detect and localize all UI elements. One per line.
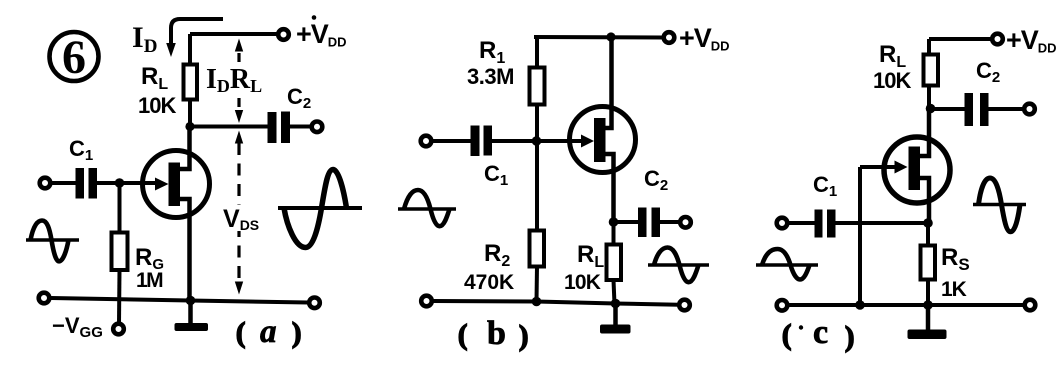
wire: input to C1 (a)	[51, 181, 77, 185]
ground (c)	[908, 305, 947, 339]
wire: top rail (c)	[929, 37, 991, 41]
wire: Rs top lead (c)	[926, 223, 930, 247]
wire: RG bottom lead (a)	[117, 270, 122, 323]
output sine wave (c)	[973, 178, 1026, 232]
label (c)	[782, 314, 854, 353]
wire: gate lead with arrow (b)	[537, 135, 594, 148]
terminal bottom-right (b)	[679, 300, 690, 311]
wire: RL top lead (a)	[188, 34, 192, 66]
terminal input (c)	[777, 218, 788, 229]
resistor R1 (b)	[530, 68, 545, 105]
wire: C2 to terminal (c)	[989, 107, 1025, 111]
wire: RL top lead (b)	[612, 222, 616, 246]
wire: C1 to gate node (a)	[97, 181, 120, 185]
capacitor C1 (b)	[471, 126, 493, 157]
resistor RL (b)	[607, 245, 622, 281]
transistor FET (c)	[884, 137, 950, 203]
terminal bottom-left (b)	[421, 296, 432, 307]
terminal output (a)	[312, 122, 323, 133]
wire: drain lead (a)	[180, 127, 190, 170]
node: drain/C2 junction (c)	[926, 104, 936, 114]
node: gate/rail junction (c)	[855, 300, 865, 310]
wire: top rail (a)	[190, 32, 277, 36]
wire: R2 bottom lead (b)	[535, 267, 540, 302]
svg-text:6: 6	[62, 31, 86, 84]
dimension line VDS (dashed)	[237, 143, 240, 282]
node: drain node (a)	[185, 122, 194, 131]
terminal output (c)	[1024, 104, 1035, 115]
label ID (drain current)	[132, 21, 157, 57]
svg-text:(: (	[236, 318, 245, 349]
svg-text:10K: 10K	[138, 93, 176, 118]
label +VDD (a)	[296, 15, 347, 49]
svg-text:(: (	[782, 320, 791, 351]
resistor RL (c)	[924, 55, 939, 86]
svg-text:b: b	[487, 315, 506, 352]
capacitor C1 (c)	[815, 210, 836, 238]
svg-text:): )	[292, 318, 301, 349]
terminal bottom-right (c)	[1025, 300, 1036, 311]
wire: R2 top lead (b)	[535, 141, 539, 232]
input sine wave (c)	[756, 249, 818, 280]
wire: C2 to terminal (a)	[290, 125, 311, 129]
svg-text:10K: 10K	[564, 271, 601, 294]
svg-text:10K: 10K	[873, 68, 911, 93]
wire: RG top lead (a)	[118, 183, 122, 234]
svg-text:1K: 1K	[941, 278, 967, 301]
svg-text:1M: 1M	[136, 269, 163, 292]
dimension arrow VDS (top)	[235, 131, 243, 144]
terminal +VDD (c)	[992, 34, 1003, 45]
wire: RL bottom lead (a)	[188, 100, 192, 128]
node: R2/rail junction (b)	[532, 297, 542, 307]
node: drain/rail junction (b)	[606, 32, 615, 41]
wire: RL bottom lead (c)	[927, 86, 931, 110]
transistor FET (b)	[570, 107, 636, 173]
terminal -VGG (a)	[113, 324, 124, 335]
node: source/C2 junction (b)	[609, 217, 619, 227]
terminal +VDD (a)	[278, 29, 289, 40]
ground (a)	[175, 300, 209, 331]
svg-text:c: c	[813, 314, 828, 351]
dimension arrow IDRL (bottom)	[235, 98, 243, 123]
input sine wave (a)	[26, 221, 79, 262]
node: RL/rail junction (b)	[611, 299, 621, 309]
wire: gate lead with arrow (a)	[120, 178, 169, 191]
wire: C2 to terminal (b)	[660, 220, 680, 224]
terminal bottom-right (a)	[309, 298, 320, 309]
terminal bottom-left (a)	[39, 293, 50, 304]
wire: bottom rail (a)	[51, 298, 308, 303]
node: source/rail junction (a)	[186, 296, 196, 306]
capacitor C2 (c)	[965, 93, 989, 126]
transistor FET (a)	[143, 151, 210, 218]
figure number 6 (circled)	[50, 31, 99, 84]
terminal output (b)	[680, 217, 691, 228]
label VDS	[220, 205, 262, 233]
wire: RL top lead (c)	[927, 39, 931, 56]
capacitor C2 (a)	[268, 112, 291, 144]
output sine wave (a) inverted	[278, 170, 362, 248]
wire: source lead (c)	[920, 178, 929, 223]
svg-text:3.3M: 3.3M	[467, 64, 514, 89]
wire: C1 to source node (c)	[836, 221, 929, 225]
resistor Rs (c)	[921, 246, 936, 280]
wire: top rail (b)	[534, 35, 663, 40]
wire: C1 to gate node (b)	[492, 139, 537, 143]
node: Rs/rail junction (c)	[923, 300, 933, 310]
label (a)	[236, 314, 301, 350]
capacitor C1 (a)	[76, 168, 98, 199]
terminal +VDD (b)	[664, 32, 675, 43]
wire: R1 bottom lead (b)	[535, 105, 539, 142]
terminal bottom-left (c)	[777, 300, 788, 311]
input sine wave (b)	[398, 190, 456, 226]
dimension arrow VDS (bottom)	[235, 282, 243, 295]
svg-text:470K: 470K	[464, 271, 514, 294]
node: gate node (b)	[532, 136, 542, 146]
wire: source lead (b)	[605, 154, 614, 222]
wire: node to C2 (b)	[614, 220, 641, 224]
wire: bottom rail (c)	[789, 303, 1024, 307]
terminal input (b)	[421, 136, 432, 147]
node: source/input junction (c)	[923, 218, 933, 228]
wire: gate lead with arrow (c)	[860, 161, 908, 174]
resistor RG (a)	[112, 233, 128, 271]
wire: source lead (a)	[180, 199, 190, 300]
wire: RL bottom lead (b)	[614, 280, 615, 304]
resistor RL (a)	[184, 65, 198, 100]
dimension arrow IDRL (top)	[235, 39, 243, 63]
resistor R2 (b)	[530, 231, 545, 267]
node: gate node (a)	[115, 178, 125, 188]
svg-text:(: (	[458, 320, 467, 351]
wire: Rs bottom lead (c)	[926, 280, 930, 306]
svg-text:): )	[845, 322, 854, 353]
wire: input to C1 (b)	[432, 139, 472, 143]
wire: drain lead (c)	[920, 109, 929, 157]
ground (b)	[600, 304, 631, 334]
wire: output wire (a)	[190, 125, 269, 129]
wire: input to C1 (c)	[788, 221, 817, 225]
terminal input (a)	[40, 178, 51, 189]
svg-text:): )	[519, 321, 528, 352]
output sine wave (b)	[648, 248, 709, 283]
wire: bottom rail (b)	[433, 301, 679, 305]
wire: R1 top lead (b)	[535, 37, 539, 69]
capacitor C2 (b)	[638, 208, 660, 238]
wire: node to C2 (c)	[931, 107, 967, 111]
current arrow ID	[166, 19, 223, 57]
wire: gate to ground rail (c)	[858, 167, 862, 305]
svg-text:a: a	[260, 314, 277, 350]
wire: drain lead (b)	[605, 37, 612, 128]
label (b)	[458, 315, 528, 352]
